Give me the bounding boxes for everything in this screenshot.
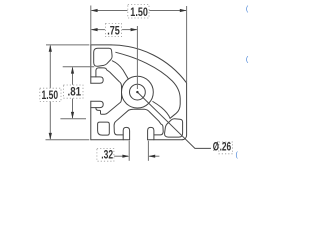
center boss circle [121, 76, 153, 108]
bottom face (two segments around bottom slot) [148, 139, 183, 141]
left 1.50 arrows [49, 45, 52, 52]
top 1.50 dim line [92, 10, 128, 12]
left slot lower lip [91, 101, 103, 107]
ext line right of top dim [186, 6, 188, 82]
svg-text:.32: .32 [101, 147, 113, 161]
inner arc wall [116, 52, 180, 118]
.81 arrows [71, 67, 74, 74]
left slot upper lip [91, 77, 103, 83]
.32 ext lines [128, 141, 130, 161]
left T-slot chamber with side pockets [96, 68, 122, 115]
dotted box .75 [105, 23, 121, 36]
top-left corner cavity [94, 48, 112, 66]
dotted box top 1.50 [128, 5, 149, 18]
leader anchor dot at hole center [136, 91, 138, 93]
svg-text:Ø: Ø [213, 139, 219, 153]
dotted boxes [40, 5, 233, 162]
bottom slot left lip [123, 127, 129, 139]
dotted box .32 [97, 149, 114, 162]
dotted box .26 [219, 142, 233, 154]
top 1.50 arrows [91, 9, 98, 12]
left face (two segments around left slot) [90, 101, 92, 140]
blue cropped glyphs at right edge [236, 6, 249, 159]
left 1.50 dim line [49, 46, 51, 88]
bottom T-slot chamber with side pockets [114, 109, 163, 135]
svg-text:.26: .26 [220, 139, 232, 153]
arrowheads [49, 9, 187, 158]
NW blend curve to boss [112, 61, 128, 79]
svg-text:.75: .75 [107, 23, 120, 37]
.75 arrows [91, 28, 98, 31]
dotted box left 1.50 [40, 88, 61, 101]
outer arc (R=1.5in, center 111,139.7) [111, 45, 187, 83]
right face [182, 83, 187, 140]
.75 dim line [92, 29, 105, 31]
.32 arrows [122, 155, 129, 158]
dotted box .81 [63, 85, 83, 98]
bottom-left corner cavity [98, 122, 110, 135]
ext line for .75 right (to hole center) [136, 26, 138, 89]
leader for hole callout [137, 92, 211, 148]
top face [91, 44, 111, 46]
svg-text:1.50: 1.50 [42, 88, 59, 102]
.81 dim line [72, 68, 74, 85]
left 1.50 ext lines [46, 44, 89, 46]
.32 dim lines [114, 155, 128, 157]
center hole Ø.26 [130, 84, 146, 100]
bottom slot right lip [148, 127, 154, 139]
bottom-right corner cavity [165, 119, 183, 137]
.81 ext lines [63, 66, 95, 68]
ext line left of top dims [90, 6, 92, 51]
svg-text:.81: .81 [68, 84, 82, 98]
svg-text:1.50: 1.50 [130, 5, 148, 19]
SE blend curve from boss [153, 102, 170, 119]
